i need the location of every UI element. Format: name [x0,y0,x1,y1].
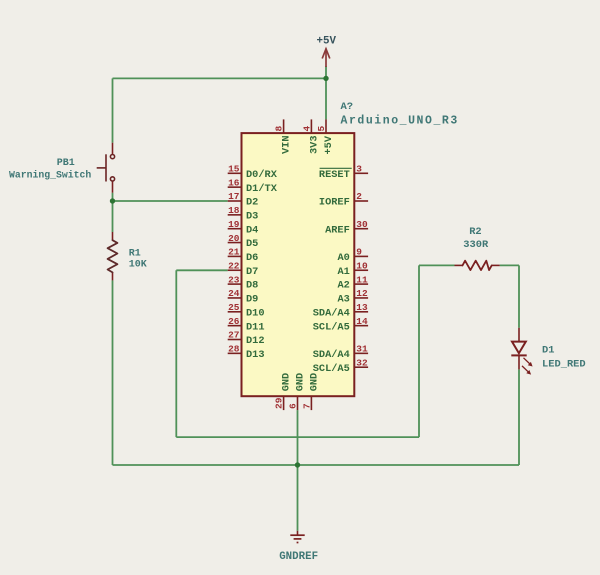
svg-text:D10: D10 [246,307,265,319]
svg-text:4: 4 [301,126,312,132]
svg-text:GND: GND [308,373,320,392]
svg-text:A3: A3 [337,294,349,306]
svg-text:17: 17 [228,191,240,202]
svg-text:19: 19 [228,219,240,230]
svg-text:D12: D12 [246,335,265,347]
svg-text:15: 15 [228,164,240,175]
svg-text:Arduino_UNO_R3: Arduino_UNO_R3 [341,115,459,128]
svg-text:GNDREF: GNDREF [279,551,318,563]
svg-text:SCL/A5: SCL/A5 [313,321,350,333]
svg-text:D1: D1 [542,345,554,357]
svg-text:AREF: AREF [325,224,350,236]
svg-text:D4: D4 [246,224,258,236]
svg-text:3V3: 3V3 [308,135,320,154]
svg-text:IOREF: IOREF [319,197,350,209]
svg-text:30: 30 [356,219,368,230]
svg-text:26: 26 [228,316,240,327]
svg-text:D8: D8 [246,280,258,292]
svg-text:13: 13 [356,302,368,313]
svg-text:D11: D11 [246,321,265,333]
svg-text:D0/RX: D0/RX [246,169,278,181]
svg-text:32: 32 [356,357,368,368]
svg-text:2: 2 [356,191,362,202]
svg-text:A2: A2 [337,280,349,292]
svg-text:14: 14 [356,316,368,327]
svg-text:16: 16 [228,177,240,188]
svg-text:SDA/A4: SDA/A4 [313,349,350,361]
svg-text:D2: D2 [246,197,258,209]
svg-text:27: 27 [228,330,240,341]
svg-text:330R: 330R [463,239,489,251]
svg-text:28: 28 [228,344,240,355]
svg-text:D5: D5 [246,238,258,250]
svg-text:31: 31 [356,344,368,355]
svg-text:24: 24 [228,288,240,299]
svg-text:25: 25 [228,302,240,313]
svg-text:22: 22 [228,260,240,271]
svg-text:A?: A? [341,101,354,113]
svg-text:D13: D13 [246,349,265,361]
svg-text:D7: D7 [246,266,258,278]
svg-text:10K: 10K [129,260,147,271]
svg-text:9: 9 [356,247,362,258]
svg-text:GND: GND [295,373,307,392]
svg-text:R2: R2 [469,226,481,238]
svg-text:20: 20 [228,233,240,244]
svg-text:+5V: +5V [317,36,337,48]
svg-text:D1/TX: D1/TX [246,183,278,195]
svg-text:21: 21 [228,247,240,258]
svg-text:8: 8 [274,126,285,132]
svg-text:GND: GND [281,373,293,392]
svg-text:A0: A0 [337,252,349,264]
svg-text:RESET: RESET [319,169,350,181]
svg-text:+5V: +5V [323,135,335,154]
svg-text:D3: D3 [246,210,258,222]
svg-text:A1: A1 [337,266,349,278]
svg-text:7: 7 [301,403,312,409]
svg-text:18: 18 [228,205,240,216]
svg-text:D6: D6 [246,252,258,264]
svg-text:PB1: PB1 [57,158,75,169]
svg-text:11: 11 [356,274,368,285]
svg-text:R1: R1 [129,249,141,260]
svg-text:29: 29 [274,397,285,409]
svg-text:5: 5 [316,126,327,132]
svg-text:D9: D9 [246,294,258,306]
svg-text:6: 6 [288,403,299,409]
svg-text:10: 10 [356,260,368,271]
svg-text:23: 23 [228,274,240,285]
svg-text:LED_RED: LED_RED [542,358,586,370]
svg-text:VIN: VIN [281,135,293,154]
svg-text:12: 12 [356,288,368,299]
svg-text:SDA/A4: SDA/A4 [313,307,350,319]
svg-text:3: 3 [356,164,362,175]
svg-text:Warning_Switch: Warning_Switch [9,170,91,181]
